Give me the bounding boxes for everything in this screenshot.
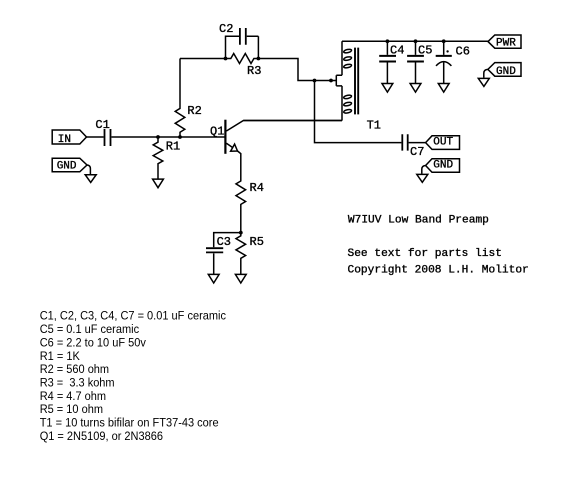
svg-text:T1: T1	[367, 118, 381, 132]
svg-text:R1 = 1K: R1 = 1K	[40, 349, 81, 363]
svg-text:See text for parts list: See text for parts list	[348, 248, 502, 260]
svg-text:Q1 = 2N5109, or 2N3866: Q1 = 2N5109, or 2N3866	[40, 429, 163, 443]
svg-text:GND: GND	[433, 160, 453, 172]
svg-text:C5 = 0.1 uF ceramic: C5 = 0.1 uF ceramic	[40, 322, 139, 336]
svg-text:C6: C6	[456, 44, 470, 58]
svg-text:R1: R1	[166, 139, 180, 153]
svg-text:W7IUV Low Band Preamp: W7IUV Low Band Preamp	[348, 214, 489, 226]
svg-text:C7: C7	[410, 145, 424, 159]
svg-text:Copyright 2008 L.H. Molitor: Copyright 2008 L.H. Molitor	[348, 264, 529, 276]
svg-text:PWR: PWR	[496, 38, 516, 50]
svg-text:GND: GND	[57, 161, 77, 173]
svg-text:C1: C1	[95, 118, 109, 132]
svg-text:C2: C2	[219, 22, 233, 36]
svg-text:T1 = 10 turns bifilar on FT37-: T1 = 10 turns bifilar on FT37-43 core	[40, 416, 219, 430]
svg-text:IN: IN	[58, 134, 71, 146]
svg-text:C1, C2, C3, C4, C7 = 0.01 uF c: C1, C2, C3, C4, C7 = 0.01 uF ceramic	[40, 309, 226, 323]
svg-text:R3: R3	[247, 64, 261, 78]
svg-text:R5: R5	[250, 235, 264, 249]
svg-text:R4 = 4.7 ohm: R4 = 4.7 ohm	[40, 389, 106, 403]
svg-text:C4: C4	[390, 44, 404, 58]
svg-text:OUT: OUT	[433, 137, 453, 149]
svg-text:C5: C5	[418, 44, 432, 58]
svg-text:C6 = 2.2 to 10 uF 50v: C6 = 2.2 to 10 uF 50v	[40, 335, 147, 349]
svg-text:GND: GND	[496, 66, 516, 78]
svg-text:R2: R2	[187, 104, 201, 118]
svg-text:Q1: Q1	[210, 125, 224, 139]
svg-text:R5 = 10 ohm: R5 = 10 ohm	[40, 402, 103, 416]
svg-text:C3: C3	[217, 235, 231, 249]
svg-text:R3 = 3.3 kohm: R3 = 3.3 kohm	[40, 375, 115, 389]
svg-text:R2 = 560 ohm: R2 = 560 ohm	[40, 362, 109, 376]
svg-text:R4: R4	[250, 181, 264, 195]
